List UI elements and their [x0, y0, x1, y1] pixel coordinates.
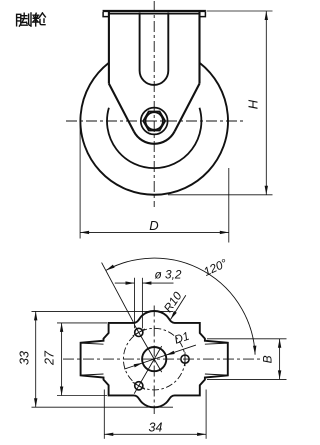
front vertical centerline: [153, 1, 155, 207]
plate vertical centerline: [153, 306, 155, 415]
right wing bottom chamfer: [205, 374, 227, 375]
radial centerline 240deg: [134, 346, 162, 394]
mounting hole right: [181, 355, 189, 363]
fork right diagonal: [175, 84, 200, 132]
33 dimension line: [35, 311, 37, 407]
mounting hole lower left: [135, 382, 143, 390]
120deg ray: [102, 263, 134, 322]
plate right tab: [200, 12, 206, 17]
plate bottom edge: [108, 13, 201, 15]
svg-text:B: B: [261, 355, 275, 363]
svg-text:ø 3,2: ø 3,2: [155, 268, 182, 282]
right wing top chamfer: [205, 343, 227, 344]
svg-text:H: H: [246, 99, 261, 109]
34 extension left: [103, 390, 105, 439]
33 extension top: [32, 310, 174, 312]
hole dia dimension line: [115, 282, 135, 284]
120deg arc: [106, 258, 255, 355]
fork left diagonal: [109, 84, 134, 132]
H dimension line: [265, 11, 267, 195]
B extension top: [207, 338, 287, 340]
svg-text:33: 33: [18, 351, 32, 365]
D dimension line: [80, 231, 229, 233]
fork left leg: [108, 12, 110, 84]
H extension top: [207, 10, 273, 12]
plate horizontal centerline: [63, 358, 262, 360]
axle circle: [146, 112, 163, 129]
hole dia extension lines: [134, 278, 136, 329]
top plate: [103, 10, 206, 12]
B extension bottom: [207, 378, 287, 380]
34 dimension line: [104, 433, 206, 435]
radial centerline 120deg: [134, 325, 162, 373]
D extension left: [79, 118, 81, 239]
wheel outer circle D: [80, 63, 228, 195]
svg-text:D: D: [149, 218, 158, 233]
fork yoke arc: [134, 131, 175, 143]
fork slot: [140, 13, 169, 85]
plate left tab: [103, 12, 109, 17]
27 extension bottom: [57, 395, 107, 397]
title text jiao-lun (caster): [17, 13, 31, 26]
B dimension line: [279, 339, 281, 380]
R10 leader: [171, 295, 186, 319]
27 extension top: [57, 322, 107, 324]
D1 leader line: [124, 345, 196, 369]
front horizontal centerline: [66, 120, 244, 122]
center hole: [142, 347, 166, 371]
axle hex nut: [143, 112, 165, 131]
svg-text:27: 27: [43, 350, 57, 366]
svg-text:34: 34: [149, 421, 163, 435]
fork right leg: [198, 12, 200, 84]
left wing top chamfer: [81, 343, 103, 344]
33 extension bottom: [32, 406, 174, 408]
wheel hub circle: [107, 108, 201, 168]
bolt circle D1: [123, 328, 185, 390]
D extension right: [228, 168, 230, 243]
mounting hole upper left: [135, 328, 143, 336]
H extension bottom: [168, 194, 273, 196]
27 dimension line: [61, 323, 63, 396]
left wing bottom chamfer: [81, 374, 103, 375]
34 extension right: [205, 390, 207, 439]
hub cap circle: [141, 108, 168, 135]
plate outline: [81, 311, 228, 407]
